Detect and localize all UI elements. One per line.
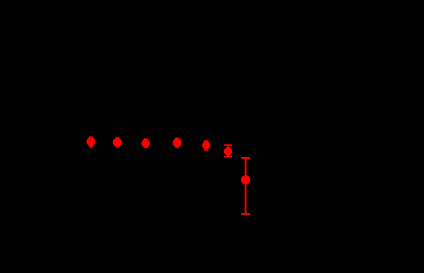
errorbar point 6 xyxy=(224,145,232,157)
data point 2 xyxy=(113,138,122,147)
errorbar caps point 3 xyxy=(144,139,148,147)
errorbar caps point 4 xyxy=(175,138,179,147)
data point 4 xyxy=(173,138,182,147)
data point 3 xyxy=(141,139,150,148)
data point 6 xyxy=(224,147,232,155)
data point 7 xyxy=(241,175,250,184)
data point 1 xyxy=(86,137,95,146)
errorbar point 7 xyxy=(241,158,250,214)
errorbar caps point 2 xyxy=(115,138,119,147)
errorbar caps point 1 xyxy=(89,137,93,146)
errorbar caps point 5 xyxy=(204,141,208,150)
data point 5 xyxy=(202,141,210,149)
